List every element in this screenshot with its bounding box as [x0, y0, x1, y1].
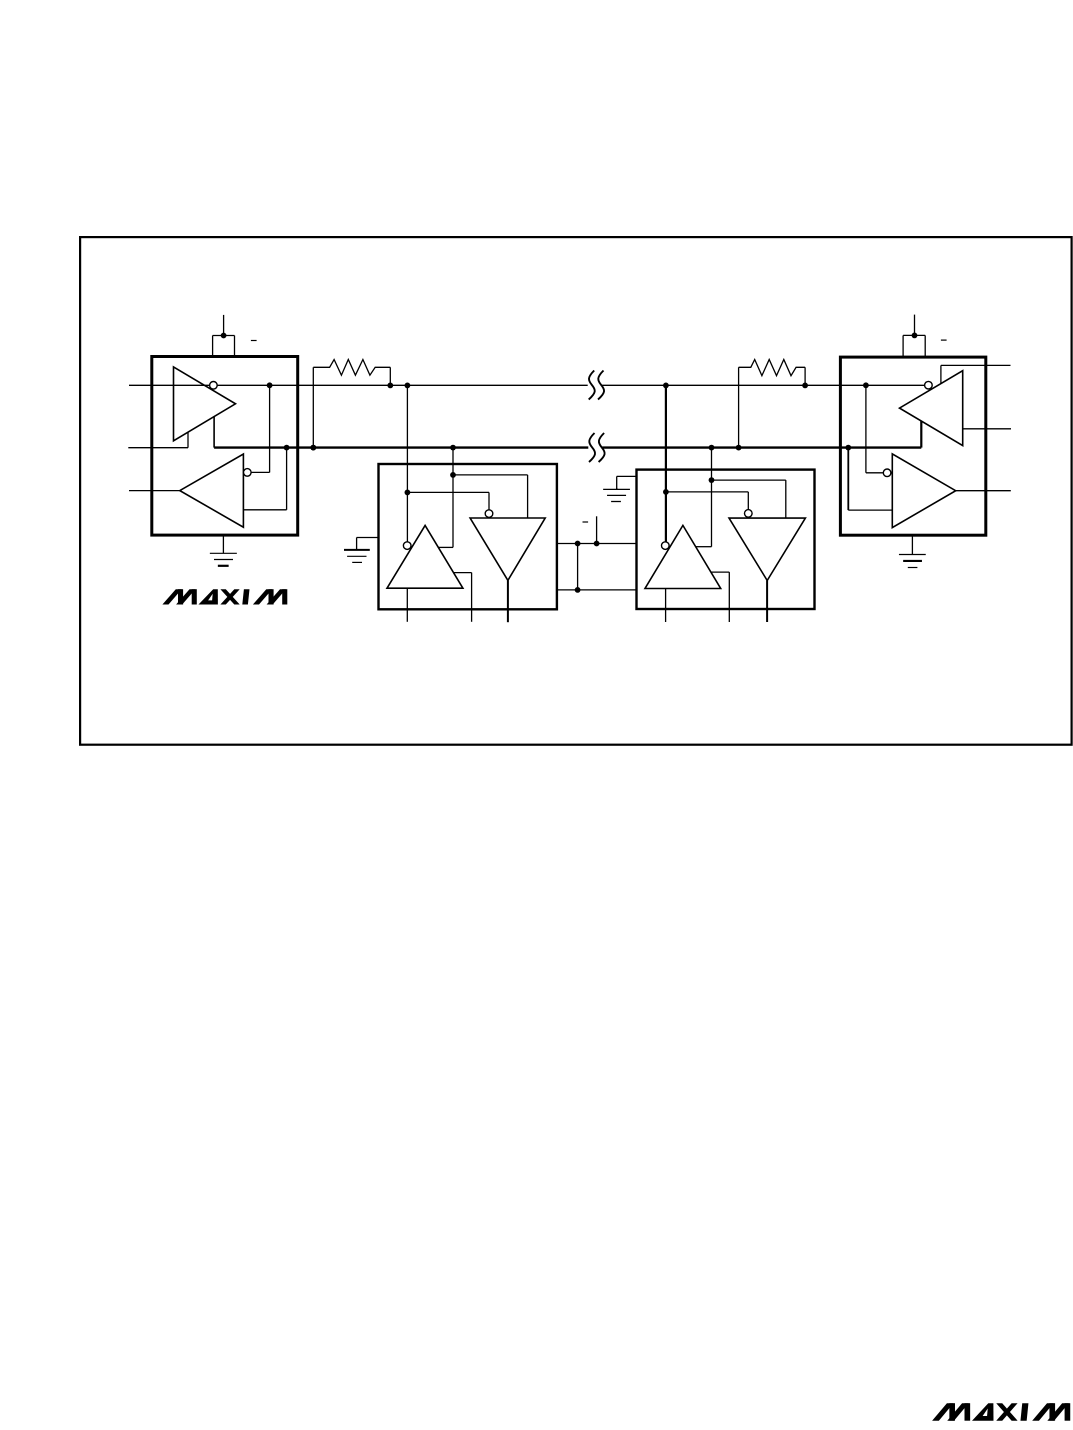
ground U2	[344, 538, 379, 563]
junction B/U2	[450, 445, 456, 451]
junction B/U3	[709, 445, 715, 451]
junction U2 internal A	[405, 490, 411, 496]
U2 receiver triangle	[387, 525, 463, 588]
U4 VCC label dash	[941, 339, 947, 341]
U2 driver triangle	[470, 518, 545, 580]
wire U3 pin stub 1	[665, 589, 667, 623]
ground U4	[899, 535, 926, 567]
bubble U4 receiver enable	[883, 469, 891, 477]
junction U3 internal A	[663, 489, 669, 495]
wire U3 pin stub 3	[766, 581, 768, 623]
break marks bus B	[589, 433, 605, 462]
junction U1 A	[267, 382, 273, 388]
wire U3 pin stub 2	[711, 572, 729, 622]
junction RT2/A	[802, 383, 808, 389]
wire U1 A tap to receiver enable	[251, 385, 270, 472]
junction U3 internal B	[709, 477, 715, 483]
U1 VCC wire	[223, 315, 225, 336]
U1 receiver R1	[180, 454, 244, 527]
U4 VCC wire	[914, 315, 916, 336]
junction U4 VCC	[912, 333, 918, 339]
transceiver U1 box	[152, 357, 298, 536]
bubble U3 receiver	[662, 542, 670, 550]
bubble U2 receiver	[403, 542, 411, 550]
wire U4 DI stub	[963, 428, 1011, 430]
junction RT1/B	[310, 445, 316, 451]
wire VCC stub mid	[596, 516, 598, 543]
bubble U1 driver out	[210, 382, 218, 390]
junction U4 A tap	[863, 382, 869, 388]
transceiver U3 box	[637, 470, 815, 609]
wire U2 pin stub 3	[507, 580, 509, 622]
bubble U1 receiver enable	[244, 469, 252, 477]
wire B drop to U3	[696, 448, 786, 547]
figure frame	[80, 237, 1072, 745]
ground U3	[603, 476, 636, 501]
junction A/U2	[405, 383, 411, 389]
Maxim logo (page footer)	[932, 1403, 1070, 1421]
resistor RT2	[739, 360, 806, 448]
junction mid 3	[575, 587, 581, 593]
wire U4 driver output Y rise	[920, 421, 922, 447]
junction mid 2	[594, 541, 600, 547]
wire U4 RO stub	[956, 490, 1011, 492]
bubble U2 driver	[485, 510, 493, 518]
break marks bus A	[589, 371, 604, 400]
wire bus line A (top)	[174, 384, 929, 386]
wire bus line B (bottom, thick)	[214, 446, 921, 448]
wire U2 pin stub 2	[454, 573, 472, 622]
junction RT2/B	[736, 445, 742, 451]
junction U4 B tap	[845, 445, 851, 451]
Maxim logo (figure)	[162, 589, 287, 604]
wire U4 B tap to receiver input	[848, 448, 892, 511]
junction A/U3	[663, 383, 669, 389]
junction RT1/A	[387, 383, 393, 389]
wire U2-U3 lower	[557, 589, 637, 591]
wire U1 RO stub	[129, 490, 180, 492]
U4 driver triangle	[900, 371, 963, 446]
ground U1	[210, 535, 237, 566]
wire A drop to U2	[407, 385, 489, 541]
resistor RT1	[313, 360, 390, 448]
wire U4 A tap to receiver enable	[866, 385, 884, 473]
wire U1 DI stub	[129, 384, 174, 386]
wire U1 B tap to receiver input	[243, 448, 286, 510]
wire U2-U3 jumper	[577, 544, 579, 590]
junction U1 B1	[284, 445, 290, 451]
junction U1 B2	[310, 445, 316, 451]
U1 VCC label dash	[251, 340, 257, 342]
U3 driver triangle	[729, 518, 805, 580]
wire U1 driver output Y drop	[213, 417, 215, 448]
junction U1 VCC	[221, 333, 227, 339]
U1 driver D1	[174, 367, 236, 441]
wire U2-U3 upper	[557, 543, 637, 545]
VCC label dash mid	[583, 521, 589, 523]
wire B drop to U2	[438, 448, 527, 548]
wire U2 pin stub 1	[406, 588, 408, 622]
bubble U4 driver out	[925, 381, 933, 389]
wire A drop to U3	[666, 385, 748, 541]
junction U2 internal B	[450, 472, 456, 478]
wire U4 DE stub	[941, 365, 1011, 383]
U1 VCC tab	[213, 336, 235, 357]
U4 receiver triangle	[892, 454, 955, 528]
junction mid 1	[575, 541, 581, 547]
transceiver U4 box	[840, 357, 985, 535]
transceiver U2 box	[379, 464, 557, 609]
bubble U3 driver	[745, 510, 753, 518]
U4 VCC tab	[903, 335, 925, 357]
U3 receiver triangle	[645, 525, 721, 588]
wire U1 DE stub	[128, 432, 188, 448]
